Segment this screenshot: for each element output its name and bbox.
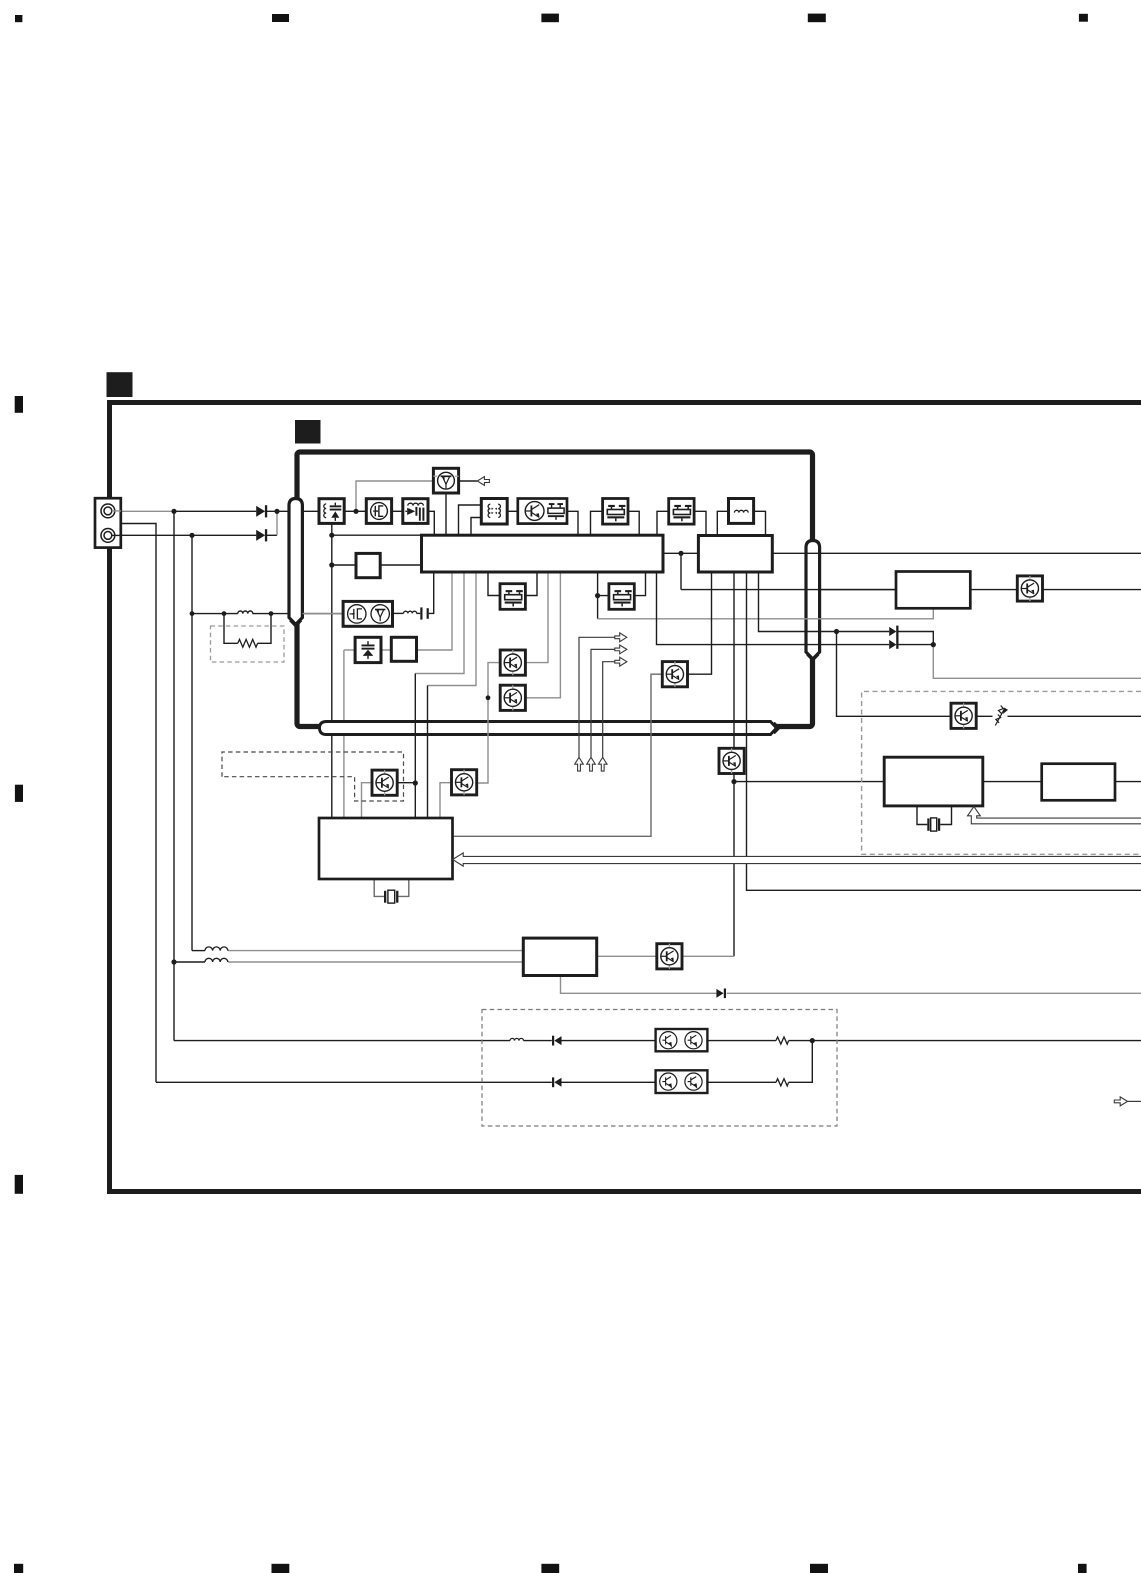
wire antenna connector mid feeder [121, 524, 156, 1083]
wire PLL block crystal X1 leads [374, 879, 409, 896]
wire amp box to transistor Q10 [970, 589, 1017, 591]
wire FM feed upper to AM box [228, 950, 523, 952]
wire AM det line to amp box bottom [598, 608, 934, 619]
wire junction down to IF output line [681, 553, 896, 589]
wire pair box B to resistor R3 [707, 1081, 776, 1083]
MOSFET box U2 [366, 499, 391, 524]
wire MOSFET pair box left to bar [302, 613, 343, 615]
node varactor bottom y565 [329, 562, 334, 567]
diode D2 [256, 529, 267, 541]
registration mark top-left [15, 15, 22, 22]
transistor Q9 [452, 770, 477, 795]
wire coil L6 to diode D5 [524, 1040, 552, 1042]
arrow into buffer transistor [477, 477, 489, 486]
mute arrow right 1 [615, 633, 627, 642]
wire MOSFET pair box to coil L5 [393, 612, 404, 614]
wire interface box to page edge [1115, 781, 1141, 783]
wire ceramic filter CF1 right pin [628, 511, 639, 535]
wire transistor Q4 right pin to IC1 [526, 572, 548, 663]
diode D1 [256, 505, 267, 517]
wire transistor Q5 right pin to IC1 [526, 572, 561, 698]
ceramic filter CF3 [500, 584, 525, 610]
wire coil L5 to capacitor C2 [417, 612, 421, 614]
wire lower loop line to diode D6 [156, 1081, 552, 1083]
left edge-connector bar break chevron [290, 621, 301, 627]
inductor L6 [510, 1038, 524, 1040]
wire IC2 right to page edge [772, 552, 1141, 554]
wire x415 down to PLL block top [414, 674, 416, 819]
node diode D1 output [274, 509, 279, 514]
wire resistor R1 parallel branch [224, 614, 271, 644]
wire ceramic filter CF4 right pin [633, 572, 645, 596]
wire junction to MOSFET box U2 [356, 510, 366, 512]
registration mark left 1 [15, 396, 23, 413]
wire diode D2 output [266, 534, 277, 536]
wire empty square right to IC1 bottom gray [417, 572, 453, 650]
interface box [1042, 764, 1115, 801]
section marker square B [295, 420, 321, 444]
ceramic filter CF2 [669, 499, 694, 525]
wire ceramic filter CF1 left pin [591, 511, 603, 535]
inductor L1 [238, 611, 253, 614]
ceramic filter CF1 [603, 499, 628, 525]
wire varactor bottom junction to AGC square [332, 564, 422, 566]
resistor R3 [776, 1079, 789, 1086]
wire transistor Q6 left pin long drop [453, 674, 663, 836]
wire IC1 bottom jog to PLL via x415 [415, 572, 464, 674]
wire mute line arrow 1 [579, 637, 615, 757]
PLL IC block [884, 757, 983, 806]
oscillator box with transistor and resonator [518, 499, 567, 524]
hollow bus arrow into PLL synthesizer block [453, 853, 1141, 866]
wire AM box right to transistor Q12 [597, 955, 658, 957]
transistor Q11 [951, 703, 976, 728]
registration mark bottom 3 [541, 1564, 559, 1573]
resistor R1 [238, 639, 258, 647]
wire stereo ind line to page edge [933, 645, 1141, 679]
mute arrow up 3 [598, 757, 607, 771]
wire buffer transistor Q1 output to arrow [459, 480, 478, 482]
registration mark left 2 [15, 785, 23, 802]
wire jack2 column down to FM feed line [191, 535, 193, 950]
wire Q7 emitter junction to PLL IC right block [734, 781, 884, 783]
wire IF transformer T1 left pins to IC1 [459, 505, 482, 535]
wire oscillator box output to IC1 top [567, 511, 578, 535]
wire antenna matching line y613 branch left [192, 613, 238, 615]
node AGC branch [834, 629, 839, 634]
dashed box around AM loop network [482, 1010, 837, 1127]
dashed outline around muting transistor Q8 [222, 752, 404, 801]
node antenna junction 1 [171, 509, 176, 514]
wire resistor R2 to page edge [789, 1040, 1141, 1042]
wire capacitor C2 up to IC1 bottom [429, 572, 434, 613]
registration mark bottom 4 [810, 1564, 828, 1573]
wire ceramic filter CF4 left pin with branch [598, 572, 609, 619]
wire IC2 pin to data line y881 [747, 572, 1141, 890]
transistor Q8 [372, 770, 397, 795]
wire PLL IC right to interface box [983, 781, 1042, 783]
wire PLL IC crystal X2 leads [917, 806, 952, 825]
inductor L3 [205, 958, 228, 962]
wire IC1 bottom jog via x427 [428, 572, 477, 686]
transistor Q10 [1017, 576, 1042, 601]
transistor Q7 [719, 748, 744, 773]
MOSFET pair box [343, 601, 392, 626]
wire IC2 pin down to stereo line y631 [759, 572, 890, 632]
wire zener branch down to PLL block top through bottom connector bar [343, 650, 345, 818]
node resistor R1 left [222, 611, 227, 616]
wire resistor R3 riser to junction [789, 1041, 813, 1083]
variable attenuator symbol [995, 706, 1007, 726]
wire transistor Q10 to page edge [1042, 589, 1141, 591]
diode D5 [552, 1036, 562, 1046]
AGC square box [356, 553, 380, 577]
crystal X1 [384, 890, 398, 903]
node FM feed lower branch [171, 959, 176, 964]
transistor pair box A [656, 1029, 708, 1051]
wire FM feed lower from junction with coil L3 [174, 961, 205, 963]
node varactor input [353, 509, 358, 514]
wire diode D5 to pair box A [562, 1040, 656, 1042]
wire transistor Q12 to Q7 column [682, 955, 734, 957]
capacitor C2 [420, 607, 429, 619]
right edge-connector bar of tuner module [806, 541, 820, 660]
IF amp box [896, 572, 970, 609]
mute arrow up 2 [587, 757, 596, 771]
wire discriminator coil L4 right pin [754, 511, 766, 535]
wire varactor box input from bar [344, 510, 356, 512]
node varactor bottom y535 [329, 533, 334, 538]
wire pair box A to resistor R2 [707, 1040, 776, 1042]
registration mark top 2 [272, 14, 289, 22]
wire AGC branch down to transistor Q11 [837, 632, 952, 717]
tuner module outline [297, 452, 813, 727]
antenna connector J1 [95, 498, 121, 547]
wire AM box bottom to diode D4 line [561, 976, 717, 994]
inductor L2 [205, 947, 228, 951]
diode D6 [552, 1077, 562, 1087]
dashed box around PLL section [862, 691, 1141, 854]
wire dual diode D3 output jog [898, 632, 933, 645]
node filter CF4 input [595, 593, 600, 598]
wire IC1 bottom to meter line y644 [657, 572, 890, 645]
right edge-connector bar break chevron [807, 655, 819, 661]
transistor Q6 [662, 662, 687, 687]
buffer transistor box Q1 [433, 468, 458, 493]
registration mark top 4 [808, 14, 826, 23]
registration mark bottom 2 [272, 1564, 290, 1573]
node x415 transistor Q8 output [413, 780, 418, 785]
inductor L5 [404, 611, 417, 613]
node IC1 IC2 link [678, 551, 683, 556]
wire IC2 pin through transistor Q7 column [733, 572, 735, 956]
wire FM feed lower to AM box [228, 961, 523, 963]
wire transistor Q8 base link [362, 783, 373, 818]
crystal X2 [927, 818, 940, 831]
wire mute line arrow 3 [603, 662, 615, 758]
registration mark left 3 [15, 1175, 23, 1194]
PLL synthesizer block [319, 818, 453, 879]
wire junction to diode D1 [174, 510, 256, 512]
wire page edge arrow feed [1128, 1100, 1141, 1102]
mute arrow right 2 [615, 645, 627, 654]
node resistor R1 right [269, 611, 274, 616]
dashed box around antenna matching resistor [211, 626, 285, 662]
wire diode D1 output to varactor box through left connector bar [266, 510, 319, 512]
wire discriminator coil L4 left pin [717, 511, 728, 535]
empty square box [391, 637, 416, 661]
diode-capacitor box D8 [403, 499, 428, 524]
wire diode-cap box output down to IC1 top [332, 511, 435, 535]
hollow bus arrow into PLL IC bottom [968, 807, 1141, 824]
wire IC1 to IC2 with junction [663, 552, 698, 554]
mute arrow right 3 [615, 657, 627, 666]
wire diode D4 to page edge [727, 992, 1141, 994]
diode D4 [716, 989, 726, 999]
main IC1 block [422, 535, 664, 572]
wire variable attenuator to page edge [1008, 715, 1141, 717]
wire zener box to empty square [381, 649, 391, 651]
wire zener box to square box link [344, 649, 355, 651]
wire ceramic filter CF2 left pin [657, 511, 669, 535]
wire MOSFET box to diode-cap box [392, 510, 403, 512]
wire IF transformer T1 to oscillator box [507, 510, 518, 512]
dual diode D3 [889, 626, 898, 650]
page exit arrow bottom right [1114, 1097, 1127, 1106]
wire transistor Q4 Q5 left pins common [477, 663, 500, 783]
node antenna junction 2 [189, 533, 194, 538]
bottom edge-connector bar break chevron [774, 723, 780, 734]
registration mark top-right [1079, 14, 1088, 22]
IF transformer box T2 [481, 499, 507, 525]
varactor tuning box D7 [319, 499, 344, 524]
outer schematic frame border [110, 403, 1141, 1192]
wire diode D6 to pair box B [562, 1081, 656, 1083]
wire junction column to AM loop line [173, 511, 175, 1040]
discriminator coil box L4 [729, 499, 754, 524]
wire ceramic filter CF3 left pin [488, 572, 500, 596]
node transistor Q5 base [486, 695, 491, 700]
wire ceramic filter CF3 right pin [525, 572, 537, 596]
resistor R2 [776, 1037, 789, 1044]
node AM loop output join [810, 1038, 815, 1043]
wire FM feed upper with coil L2 [192, 950, 205, 952]
bottom edge-connector bar of tuner module [320, 722, 777, 735]
wire buffer transistor Q1 branch gray [356, 481, 433, 511]
wire transistor Q8 output to junction x415 [397, 782, 415, 784]
registration mark bottom-right [1078, 1564, 1087, 1573]
wire buffer transistor Q1 emitter to IC1 top [445, 493, 447, 535]
mute arrow up 1 [575, 757, 584, 771]
node matching line left [190, 611, 195, 616]
wire amp box left pin line [820, 589, 896, 591]
wire diode D2 output riser [276, 511, 278, 535]
wire x427 down to PLL block top [427, 686, 429, 819]
wire AM loop line left segment [174, 1040, 510, 1042]
transistor pair box B [656, 1070, 708, 1093]
wire varactor bottom lead down to PLL block top through bottom connector bar [331, 523, 333, 818]
wire mute line arrow 2 [591, 649, 615, 757]
IC2 block [698, 536, 772, 573]
node stereo line join [931, 642, 936, 647]
ceramic filter CF4 [609, 584, 634, 610]
zener diode box D9 [355, 637, 381, 662]
node Q7 emitter line [731, 779, 736, 784]
left edge-connector bar of tuner module [289, 499, 302, 625]
wire antenna coil line to MOSFET box through left connector bar [253, 613, 344, 615]
transistor Q5 [500, 685, 525, 710]
wire ceramic filter CF2 right pin [693, 511, 706, 535]
registration mark top 3 [541, 14, 559, 23]
registration mark bottom-left [14, 1564, 23, 1573]
transistor Q12 [657, 944, 682, 969]
AM detector box [523, 938, 596, 975]
wire antenna jack 1 to junction [108, 510, 174, 512]
wire transistor Q6 right pin to IC2 [687, 572, 711, 674]
wire antenna jack 2 to diode D2 [108, 534, 256, 536]
wire transistor Q9 base link [440, 783, 452, 818]
transistor Q4 [500, 650, 525, 675]
section marker square A [107, 372, 133, 397]
wire transistor Q11 to variable attenuator [976, 715, 992, 717]
